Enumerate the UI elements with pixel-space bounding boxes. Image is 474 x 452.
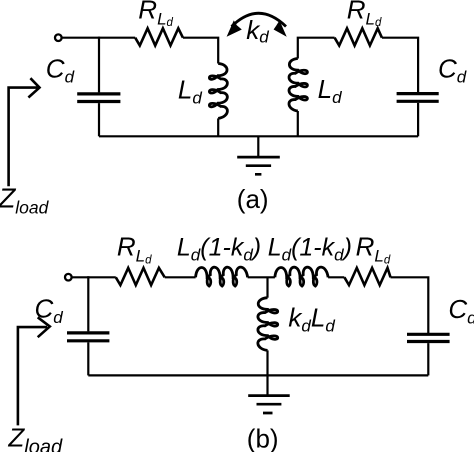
svg-text:Ld(1-kd): Ld(1-kd) <box>177 234 261 265</box>
terminal input port (b) <box>65 274 72 281</box>
wire: capacitor Cd right (b) to bottom rail <box>427 343 429 375</box>
wire: inductor 1 to center junction (b) <box>248 276 275 278</box>
wire: bottom rail (a) <box>99 135 418 137</box>
resistor R_Ld left (b) <box>116 268 165 285</box>
wire: inductor 2 to resistor R_Ld right (b) <box>328 276 344 278</box>
wire: bottom rail (b) <box>88 374 428 376</box>
Z_load arrow (a) <box>9 78 40 186</box>
svg-text:Cd: Cd <box>35 294 64 327</box>
capacitor C_d right (b) <box>407 334 450 341</box>
wire: resistor to capacitor Cd right (a) <box>382 37 418 93</box>
svg-text:(b): (b) <box>247 423 279 452</box>
svg-text:Ld(1-kd): Ld(1-kd) <box>268 234 352 265</box>
svg-text:RLd: RLd <box>347 0 382 29</box>
svg-text:Zload: Zload <box>0 182 50 217</box>
wire: top wire right inductor branch (a) <box>297 37 335 59</box>
resistor R_Ld left (a) <box>135 28 183 45</box>
inductor L_d(1-k_d) first (b) <box>196 267 248 286</box>
inductor L_d left (a) <box>209 64 227 119</box>
svg-text:RLd: RLd <box>117 232 152 267</box>
resistor R_Ld right (b) <box>344 268 390 285</box>
inductor L_d right (a) <box>289 59 307 112</box>
svg-text:RLd: RLd <box>356 232 391 267</box>
capacitor C_d right (a) <box>397 94 439 102</box>
capacitor C_d left (b) <box>67 333 109 341</box>
svg-text:Cd: Cd <box>438 53 467 86</box>
wire: input to resistor R_Ld left (b) <box>72 276 116 278</box>
Z_load arrow (b) <box>18 317 50 425</box>
ground (a) <box>257 136 259 157</box>
wire: capacitor Cd left (a) to bottom rail <box>98 103 100 136</box>
coupling arrow k_d (a) <box>232 13 287 26</box>
wire: input to resistor R_Ld (a), junction to Cd <box>62 37 135 39</box>
wire: inductor Ld left (a) down to bottom rail <box>217 118 219 136</box>
wire: branch down to capacitor Cd left (a) <box>98 37 100 93</box>
svg-text:RLd: RLd <box>138 0 173 29</box>
resistor R_Ld right (a) <box>335 28 382 45</box>
svg-text:Ld: Ld <box>318 74 342 107</box>
svg-text:Ld: Ld <box>178 74 202 107</box>
wire: inductor kdLd down to bottom rail (b) <box>266 350 268 375</box>
capacitor C_d left (a) <box>77 94 120 102</box>
svg-text:Cd: Cd <box>448 294 474 327</box>
svg-text:kd: kd <box>246 15 269 47</box>
inductor k_d L_d shunt (b) <box>258 298 278 351</box>
wire: resistor to inductor Ld(1-kd) 1 (b) <box>165 276 196 278</box>
svg-text:Cd: Cd <box>46 53 75 86</box>
svg-text:Zload: Zload <box>7 423 63 452</box>
wire: resistor to capacitor Cd right (b) <box>391 276 429 333</box>
inductor L_d(1-k_d) second (b) <box>275 267 328 286</box>
wire: center junction down to inductor kdLd (b) <box>266 277 268 297</box>
ground (b) <box>266 375 268 395</box>
wire: capacitor Cd right (a) to bottom rail <box>417 103 419 136</box>
svg-text:(a): (a) <box>237 184 269 214</box>
terminal input port (a) <box>55 34 62 41</box>
wire: branch down to capacitor Cd left (b) <box>87 276 89 331</box>
wire: capacitor Cd left (b) to bottom rail <box>87 342 89 375</box>
wire: inductor Ld right (a) down to bottom rail <box>297 111 299 136</box>
svg-text:kdLd: kdLd <box>288 302 335 335</box>
wire: resistor to inductor Ld left (a) <box>183 38 218 64</box>
